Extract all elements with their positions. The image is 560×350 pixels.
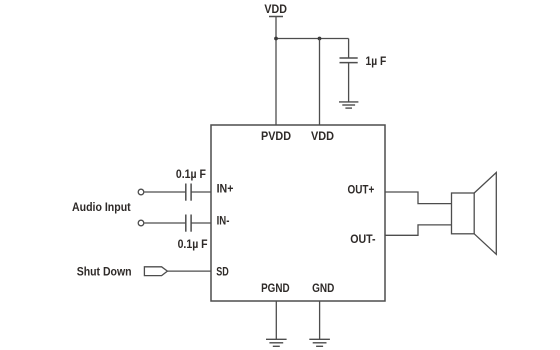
wire SD tag to pin — [167, 270, 211, 272]
wire to capacitor C1 — [348, 39, 350, 59]
ground symbol at GND — [309, 338, 330, 340]
speaker LS1 body — [452, 193, 475, 234]
svg-text:Shut Down: Shut Down — [77, 267, 132, 279]
wire GND pin to ground — [319, 301, 321, 339]
wire OUT+ to speaker — [385, 192, 452, 204]
wire PGND pin to ground — [275, 301, 277, 339]
wire OUT- to speaker — [385, 225, 452, 235]
wire C1 to ground — [348, 63, 350, 102]
terminal IN- open circle — [138, 220, 144, 226]
svg-text:VDD: VDD — [311, 131, 334, 143]
wire VDD pin drop — [319, 39, 321, 126]
svg-text:1µ F: 1µ F — [366, 56, 387, 68]
svg-text:SD: SD — [216, 266, 229, 278]
junction at VDD rail — [318, 37, 322, 41]
svg-text:Audio Input: Audio Input — [72, 202, 131, 214]
svg-text:PVDD: PVDD — [261, 131, 291, 143]
svg-text:OUT-: OUT- — [350, 234, 376, 246]
wire IN- terminal to C3 — [144, 222, 186, 224]
wire IN+ terminal to C2 — [144, 191, 186, 193]
signal tag SD flag — [144, 267, 167, 276]
terminal IN+ open circle — [138, 189, 144, 195]
ground symbol at C1 — [339, 101, 358, 103]
capacitor C3 0.1uF plates — [185, 215, 187, 232]
svg-text:IN-: IN- — [217, 216, 230, 228]
wire VDD vertical to PVDD pin — [275, 17, 277, 125]
ground symbol at PGND — [266, 338, 287, 340]
svg-text:IN+: IN+ — [217, 184, 234, 196]
svg-text:0.1µ F: 0.1µ F — [176, 169, 206, 181]
op-amp U1 amplifier body — [211, 125, 385, 301]
wire C2 to IN+ pin — [191, 191, 211, 193]
svg-text:PGND: PGND — [261, 283, 290, 295]
speaker LS1 cone — [474, 173, 496, 255]
junction at PVDD rail — [274, 37, 278, 41]
svg-text:GND: GND — [312, 283, 334, 295]
wire VDD horizontal rail — [276, 38, 349, 40]
wire C3 to IN- pin — [191, 222, 211, 224]
capacitor C1 1uF plates — [340, 57, 358, 59]
capacitor C2 0.1uF plates — [185, 184, 187, 201]
svg-text:OUT+: OUT+ — [348, 184, 375, 196]
power symbol VDD bar — [269, 16, 283, 18]
svg-text:0.1µ F: 0.1µ F — [178, 239, 208, 251]
svg-text:VDD: VDD — [264, 4, 287, 16]
